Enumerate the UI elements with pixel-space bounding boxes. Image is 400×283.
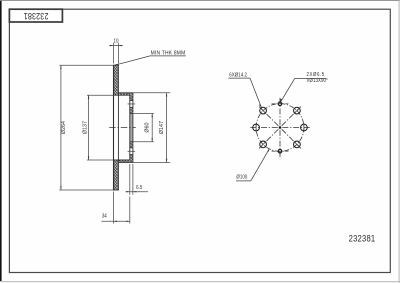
bore bottom edge [130, 141, 133, 143]
svg-text:Ø137: Ø137 [82, 121, 88, 134]
dim D147: dimension line [166, 93, 168, 163]
centerline diameter 90deg [279, 98, 281, 157]
centerline diameter 45deg [259, 107, 301, 149]
svg-text:Ø147: Ø147 [159, 121, 165, 134]
centerline diameter 0deg [250, 127, 309, 129]
bolt hole bottom upper edge [130, 147, 133, 149]
dim D137: extension top [87, 94, 114, 96]
disc OD bottom edge [113, 189, 119, 191]
svg-text:232381: 232381 [349, 233, 376, 244]
axis centerline [109, 127, 136, 129]
bolt hole top center tick [128, 103, 136, 105]
bolt hole 0deg [301, 124, 308, 131]
dim D60: extension top [133, 112, 154, 114]
hatch: hub face upper segment a [130, 95, 133, 100]
bore region gray band [130, 113, 133, 141]
label D100 underline [236, 180, 251, 182]
bolt hole 45deg [294, 107, 301, 114]
scan edge: bottom gray line [0, 281, 400, 282]
label 6xD14.2 underline [228, 77, 250, 79]
disc outboard face line [113, 65, 115, 190]
svg-text:34: 34 [102, 213, 107, 220]
bolt hole 135deg [260, 107, 267, 114]
hatch: hub face upper segment b [130, 107, 133, 113]
hatch: disc band lower [114, 160, 119, 190]
svg-text:2XØ6.5: 2XØ6.5 [307, 72, 325, 78]
dim D264: dimension line [60, 65, 62, 190]
svg-text:Ø100: Ø100 [236, 174, 247, 180]
dim D147: extension top [133, 92, 170, 94]
hatch: disc band upper [114, 65, 119, 95]
label D100 leader [251, 149, 269, 181]
dim 6.5: dimension line [126, 191, 148, 193]
dim 34: extension right [129, 197, 131, 224]
label 2xD6.5 shelf [295, 77, 327, 79]
bore top edge [130, 112, 133, 114]
disc ID top line [114, 94, 130, 96]
disc inboard face line [117, 65, 119, 190]
dim D137: extension bottom [87, 159, 114, 161]
label 6xD14.2 leader [250, 78, 261, 107]
svg-text:6.5: 6.5 [136, 184, 142, 191]
svg-text:232381: 232381 [23, 11, 48, 21]
svg-text:6XØ14.2: 6XØ14.2 [229, 72, 247, 78]
dim D264: extension bottom [59, 189, 113, 191]
bolt circle D100 dash-dot [256, 104, 304, 152]
bolt hole top upper edge [130, 100, 133, 102]
dim D264: extension top [59, 64, 113, 66]
bolt hole top lower edge [130, 106, 133, 108]
centerline diameter 135deg [259, 107, 301, 149]
svg-text:MIN THK 8MM: MIN THK 8MM [151, 50, 186, 56]
dim 10: extension lines [113, 43, 115, 64]
dim D137: dimension line [88, 95, 90, 160]
note leader [114, 56, 150, 65]
scan edge: left black bar [0, 0, 2, 281]
label 2xD6.5 leader [281, 78, 295, 102]
hatch: hub face lower segment b [130, 155, 133, 160]
small hole top D6.5 [278, 102, 282, 106]
center dot [279, 126, 282, 129]
dim D147: extension bottom [133, 161, 170, 163]
dim D60: dimension line [151, 113, 153, 141]
title box top-left [9, 9, 62, 22]
dim 34: extension left [113, 192, 115, 224]
bolt hole bottom center tick [128, 150, 136, 152]
scan edge: right gray line [399, 0, 400, 283]
dim 34: dimension line [102, 220, 130, 222]
dim D60: extension bottom [133, 141, 154, 143]
bolt hole 225deg [260, 141, 267, 148]
dim 6.5: extension right [132, 164, 134, 195]
bolt hole 180deg [253, 124, 260, 131]
hatch: hat wall lower [118, 160, 132, 162]
bolt hole 315deg [294, 141, 301, 148]
disc OD top edge [113, 64, 119, 66]
svg-text:Ø60: Ø60 [144, 123, 150, 133]
note underline shelf [150, 55, 186, 57]
disc ID bottom line [114, 159, 130, 161]
hatch: hub face lower segment a [130, 142, 133, 148]
hub face left line [129, 95, 131, 160]
dim 6.5: extension left [129, 164, 131, 195]
hat outer top edge [118, 92, 132, 94]
scan edge: top gray line [0, 0, 400, 2]
svg-text:Ø264: Ø264 [61, 121, 67, 134]
svg-text:10: 10 [114, 38, 119, 45]
hat outer bottom edge [118, 161, 132, 163]
small hole bottom D6.5 [278, 149, 282, 153]
bolt hole bottom lower edge [130, 154, 133, 156]
svg-text:VØ13X90°: VØ13X90° [307, 78, 328, 84]
dim 10: dimension line with outside arrows [109, 45, 123, 47]
hub face right line [132, 93, 134, 163]
hatch: hat wall upper [118, 93, 132, 95]
